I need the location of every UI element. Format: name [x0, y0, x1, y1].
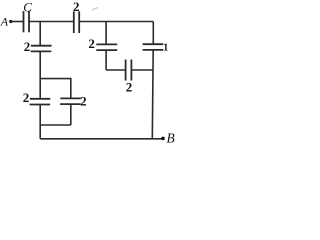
top capacitor 2 plates	[74, 11, 79, 33]
right vertical wire: top corner to capacitor 1	[152, 22, 154, 45]
svg-text:2: 2	[73, 0, 80, 14]
inner loop top wire	[40, 78, 71, 80]
svg-text:A: A	[0, 15, 9, 29]
horizontal capacitor 2e plates	[126, 60, 132, 81]
middle horizontal wire: corner to capacitor 2e	[106, 69, 125, 71]
faint scan smudge	[92, 8, 98, 11]
middle capacitor 2d plates	[96, 44, 117, 50]
terminal B dot	[161, 137, 165, 141]
left vertical wire: capacitor 2b to bottom-left corner	[39, 105, 41, 139]
middle horizontal wire: capacitor 2e to right vertical	[132, 69, 154, 71]
capacitor C plates	[24, 11, 30, 32]
svg-text:1: 1	[163, 42, 168, 53]
left capacitor 2a plates	[31, 46, 52, 52]
bottom wire	[40, 138, 163, 140]
inner loop right vertical lower wire	[70, 104, 72, 125]
svg-text:2: 2	[23, 90, 30, 105]
terminal A dot	[9, 20, 12, 23]
svg-text:2: 2	[80, 93, 87, 108]
svg-text:2: 2	[88, 36, 95, 51]
capacitor 1 plates	[143, 44, 164, 50]
middle vertical wire: top junction to middle capacitor 2d	[105, 22, 107, 45]
inner loop right vertical upper wire	[70, 78, 72, 99]
inner loop bottom wire	[40, 124, 71, 126]
wire A to capacitor C	[11, 21, 23, 23]
left capacitor 2b plates	[30, 99, 51, 105]
inner capacitor 2c plates	[60, 98, 81, 104]
left vertical wire: capacitor 2a to junction J3 and to capacitor 2b	[39, 51, 41, 99]
middle vertical wire: capacitor 2d down to corner	[105, 50, 107, 70]
svg-text:2: 2	[24, 39, 31, 54]
left vertical wire: top junction to left capacitor 2a	[39, 22, 41, 46]
wire top capacitor 2 to top-right corner	[79, 21, 153, 23]
svg-text:2: 2	[126, 79, 133, 94]
right vertical wire: capacitor 1 down to bottom wire	[151, 50, 154, 139]
svg-text:C: C	[23, 0, 32, 14]
svg-text:B: B	[166, 130, 174, 144]
wire capacitor C to top capacitor 2 (through junction at x=40.2)	[29, 21, 73, 23]
